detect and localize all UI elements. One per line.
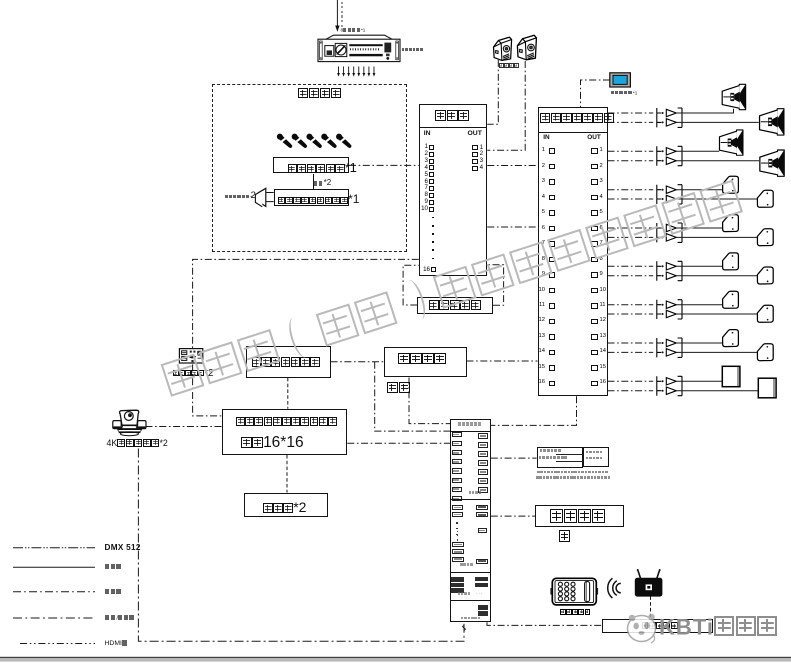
antenna splitter box [274,189,350,206]
active speaker 2 [517,35,536,60]
wire rack to control note box [491,457,537,459]
small speaker G5 far [757,267,773,284]
horn speaker G1 far [760,109,784,135]
amplifier group 5 [608,266,654,275]
wire decoder bottom to rack [409,378,450,424]
amplifier group 1 [608,113,654,122]
small speaker G7 near [723,330,739,347]
wire feedback loop right [487,265,503,306]
legend speaker line (solid) [13,566,95,568]
label active speakers [499,63,519,69]
wire rack to signal amplifier [491,515,536,517]
speaker wires group 2 [676,151,759,160]
wireless router AP [635,569,663,597]
legend label audio line [105,589,122,596]
wire DSP bottom to rack right [491,396,577,425]
wire rack bottom to wireless switch [487,622,602,625]
curtain control note box [537,447,583,468]
amplifier group 6 [608,305,654,314]
wireless touch panel tablet [551,578,598,605]
legend label HDMI line [105,640,129,648]
speaker wires group 5 [676,266,757,275]
wire matrix to projector [286,455,288,493]
wire active speaker 1 drop to mixer [487,60,498,124]
network central control rack [450,419,491,622]
wireless handheld mic box [273,157,349,173]
small speaker G4 near [723,215,739,232]
label: speech system [298,88,342,101]
rack title [458,422,483,426]
mixer IN dots [432,217,434,219]
amplifier group 8 [608,381,654,390]
label 8ch sequencer [341,28,366,33]
active speaker 1 [494,37,512,60]
speaker wires group 8 [676,381,758,390]
rack network section ports [451,577,464,581]
label wireless tablet [560,609,591,617]
horn speaker G1 near [722,84,745,109]
movie player box [246,346,331,378]
square speaker G8 near [722,366,740,386]
wire mixer to DSP IN2 [487,165,537,167]
small speaker G3 near [723,176,739,193]
legend audio line [13,591,95,593]
small speaker G3 far [757,190,773,207]
wire mains power input [336,0,338,30]
multimedia wall panel [179,349,202,363]
speaker wires group 3 [676,190,757,199]
mixer title [435,110,470,122]
wireless switch box [602,619,713,633]
wifi waves [613,581,617,596]
wire touch screen to DSP top [581,80,611,107]
horn speaker G2 far [760,150,784,176]
vertical text on power line [341,2,343,4]
small speaker G5 near [723,253,739,270]
small speaker G6 near [723,291,739,308]
wire camera to matrix [146,426,222,428]
wire router drop to wireless switch [650,596,652,619]
multitrack decoder box [384,347,467,378]
label backup power [402,48,424,53]
wire speech-system bus to multimedia panel and matrix [193,259,419,416]
signal amplifier box [535,505,624,527]
speaker wires group 4 [676,228,757,237]
wireless handheld microphones x5 [276,132,294,149]
small speaker G6 far [757,305,773,322]
DSP IN/OUT rows [536,148,545,154]
cable slack squiggle [463,626,466,631]
horn speaker G2 near [720,130,743,155]
footer band [0,657,791,658]
small speaker G4 far [757,229,773,246]
panda logo mark [620,608,680,658]
antennas x2 for mic splitter [266,193,274,202]
wire mic box to mixer [349,164,419,166]
DSP box [538,107,608,396]
vertical feeder wire [313,174,314,190]
small speaker G7 far [757,344,773,361]
mixer OUT rows [472,145,478,150]
rack lighting section ports [478,605,488,609]
speaker wires group 7 [676,343,757,352]
amplifier group 3 [608,190,654,199]
wire mixer to DSP IN6 [487,226,537,228]
rack control section ports [452,505,463,510]
touch control screen [610,73,631,87]
watermark company name [158,164,780,402]
legend label network/control line [105,615,135,622]
wire player to matrix [287,378,289,409]
note text lines [537,471,609,475]
wire active speaker 2 drop to mixer OUT [487,61,525,150]
rack audio section ports [452,432,462,437]
speaker wires group 1 [676,109,759,123]
DSP title [540,113,614,125]
wire player to decoder with tap to rack [331,362,450,431]
label multimedia panel [173,369,214,379]
mixer IN row 16 [421,267,430,273]
amplifier group 2 [608,151,654,160]
speech system dashed enclosure [212,84,407,252]
label 4K camera [107,439,168,448]
power sequencer 8-ch [318,35,400,61]
amplifier group 7 [608,343,654,352]
mixer box [419,104,488,276]
legend HDMI line [20,643,95,645]
feeder cable label [314,179,332,187]
wire camera DMX drop, bottom run, rack riser [138,449,464,642]
sequencer output arrows [337,67,375,77]
projector box [244,493,329,518]
legend network/control line [13,617,95,619]
square speaker G8 far [758,378,776,398]
mixer IN rows [421,144,428,150]
KBTi logo text [659,616,779,639]
4K PTZ camera [113,410,146,435]
legend label speaker line [105,564,122,571]
HD matrix box [222,409,348,455]
feedback suppressor box [417,297,493,314]
label touch control screen [611,91,638,96]
antenna label [225,195,253,200]
decoder overflow text [387,382,411,395]
power controller note box [583,447,610,467]
legend label DMX512 [105,544,141,552]
wire decoder to DSP IN [467,360,538,362]
legend DMX512 line [13,547,95,549]
wire feedback loop left [403,265,419,305]
amplifier group 4 [608,228,654,237]
speaker wires group 6 [676,305,757,314]
wire matrix to rack [347,442,450,444]
